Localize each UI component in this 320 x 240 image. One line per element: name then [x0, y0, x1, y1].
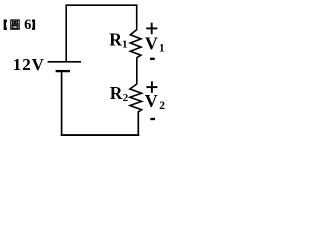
wire bottom	[61, 134, 139, 136]
glyph 圖	[11, 20, 19, 29]
svg-text:R: R	[109, 30, 122, 50]
battery B1 short plate (-)	[56, 70, 70, 72]
minus sign of V2	[150, 118, 155, 120]
svg-text:V: V	[145, 91, 158, 111]
minus sign of V1	[150, 58, 155, 60]
resistor R2 zigzag	[130, 84, 142, 112]
figure label 【圖6】	[5, 17, 34, 33]
wire left lower	[61, 71, 63, 136]
wire right upper	[136, 5, 138, 31]
svg-text:1: 1	[122, 39, 128, 51]
wire right lower	[137, 112, 139, 136]
left bracket 【	[5, 21, 7, 29]
resistor R1 zigzag	[130, 30, 141, 58]
svg-text:1: 1	[159, 42, 165, 54]
svg-text:12V: 12V	[13, 55, 45, 74]
wire left upper	[65, 5, 67, 62]
wire top	[65, 4, 137, 6]
svg-text:2: 2	[159, 100, 165, 112]
svg-text:2: 2	[123, 92, 129, 104]
svg-text:R: R	[110, 83, 123, 103]
svg-text:V: V	[145, 34, 158, 54]
wire right middle	[136, 57, 138, 84]
right bracket 】	[32, 21, 34, 29]
plus sign of V2	[146, 81, 157, 93]
plus sign of V1	[146, 23, 157, 35]
battery B1 long plate (+)	[48, 61, 81, 63]
svg-text:6: 6	[24, 17, 31, 33]
